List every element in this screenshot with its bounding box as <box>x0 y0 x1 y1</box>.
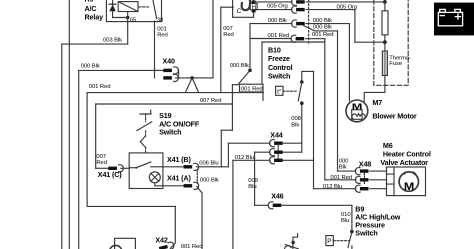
wire X44 row1 west <box>228 142 270 144</box>
wire 003 Blk down left bundle line 1 <box>61 44 63 249</box>
S19 actuator dashes lower <box>145 131 147 153</box>
relay coil K1 <box>118 2 138 12</box>
wire 000 Blk X41 A diagonal <box>197 186 202 193</box>
thermo fuse body <box>382 51 387 75</box>
junction dot pin 65 <box>126 16 129 19</box>
wire row B east <box>306 9 355 11</box>
svg-text:M: M <box>352 102 363 111</box>
connector X40 row2 plug <box>163 74 178 81</box>
connector X41 A plug <box>184 182 199 189</box>
connector X46 socket <box>268 202 281 209</box>
wire 000 Blk elbow to diagonal <box>232 84 237 86</box>
wire X44 row2 east <box>283 151 302 153</box>
wire coil bottom to pin 65 <box>127 12 129 18</box>
svg-text:Valve Actuator: Valve Actuator <box>380 158 428 167</box>
svg-text:X44: X44 <box>270 130 282 139</box>
B9 pressure box <box>326 236 333 246</box>
svg-text:B10: B10 <box>268 46 281 55</box>
relay switch blade to pin 30 <box>153 0 157 19</box>
svg-text:001: 001 <box>157 26 167 32</box>
svg-text:000 Blk: 000 Blk <box>230 63 249 69</box>
wire 000 Blk to X40 row1 <box>79 69 164 71</box>
connector X41 C plug <box>108 165 123 172</box>
wire to fuse bottom dot <box>355 41 385 43</box>
wire bundle line 2 from top <box>68 0 70 249</box>
bottom switch blade <box>285 245 298 249</box>
S19 switch blade <box>136 162 151 168</box>
wire 012 Blu drop x232.9 to bottom <box>232 160 234 249</box>
wire 000 Blk to X48 row1 <box>338 170 356 172</box>
wire down x202 to bottom <box>201 193 203 249</box>
wire pin 30 down to X40 row2 <box>154 21 156 78</box>
S19 blade pivot nub <box>135 167 137 169</box>
fuse body <box>382 11 388 35</box>
wire X46 east to B9 <box>281 204 352 206</box>
svg-text:005 Org: 005 Org <box>267 4 288 10</box>
wire row D east 001 Red <box>306 38 325 40</box>
bottom enclosure right edge with X42 lead <box>170 206 175 248</box>
svg-text:C: C <box>237 8 242 15</box>
wire 012 Blu drop x313.5 <box>313 71 315 188</box>
wire 009 Blu drop x254.6 <box>254 152 256 205</box>
wire S19 to X41 B <box>163 166 184 168</box>
wire diode to junction <box>113 17 128 19</box>
wire 001 Red row D west <box>250 38 291 40</box>
connector row D socket <box>291 35 304 42</box>
svg-text:30: 30 <box>157 18 163 24</box>
B10 t-switch box <box>276 86 283 95</box>
M6 motor circle <box>399 172 418 191</box>
S19 wire into blade <box>129 167 136 169</box>
M7 fan arcs <box>352 114 365 119</box>
M7 blower motor circle <box>346 100 368 122</box>
S19 lamp cross <box>151 173 159 181</box>
wire X48 row2 to M6 <box>370 179 387 181</box>
svg-text:M7: M7 <box>372 98 382 107</box>
svg-text:Blu: Blu <box>248 184 256 190</box>
svg-text:X41 (C): X41 (C) <box>98 170 122 179</box>
svg-text:005 Org: 005 Org <box>337 4 358 10</box>
S19 lamp circle <box>149 172 160 183</box>
wire 005 Org row A west <box>254 1 292 3</box>
battery body <box>438 9 462 25</box>
svg-text:000 Blk: 000 Blk <box>268 18 287 24</box>
B10 label box stub down <box>262 92 264 100</box>
wire X44 row1 west riser x228.4 <box>227 143 229 167</box>
pin H square <box>250 3 257 9</box>
svg-text:001 Red: 001 Red <box>312 32 334 38</box>
svg-text:Relay: Relay <box>85 13 104 22</box>
svg-text:001 Red: 001 Red <box>268 33 290 39</box>
wire riser at x213 to top <box>212 0 214 78</box>
B10 box top <box>262 41 325 43</box>
wire X48 row3 to M6 <box>370 188 387 190</box>
B10 switch top dot <box>300 80 304 84</box>
wire 008 Blk riser B10 switch <box>301 103 303 152</box>
connector X44 row1 socket <box>270 140 283 147</box>
pin H dot lower <box>252 10 256 13</box>
pin H dot upper <box>252 1 256 4</box>
wire diagonal from junction x250 <box>238 70 250 84</box>
svg-text:Freeze: Freeze <box>268 54 290 63</box>
S19 right contact wire <box>151 166 163 168</box>
svg-text:Fuse: Fuse <box>389 61 403 67</box>
bottom switch dot <box>291 241 294 244</box>
dashed harness box around thermo fuse <box>374 0 408 85</box>
wire X48 row1 to M6 <box>370 170 387 172</box>
svg-text:000 Blk: 000 Blk <box>313 18 332 24</box>
wire ladder riser x232.4 <box>231 85 233 131</box>
B9 switch blade <box>348 232 352 248</box>
wire into X41 C <box>96 167 108 169</box>
wire 007 Red down to X41 C <box>95 104 97 168</box>
M7 fan housing rect <box>352 110 362 120</box>
wire 000 Blk row C west <box>250 23 292 25</box>
svg-text:Blu: Blu <box>341 218 349 224</box>
relay dashed actuator link <box>139 6 149 8</box>
wire X40 row2 east <box>176 77 213 79</box>
wire 003 Blk horizontal <box>62 43 128 45</box>
fuse leads <box>384 2 386 42</box>
connector X48 row3 socket <box>355 185 368 192</box>
wire ladder drop x221.3 <box>220 130 222 167</box>
S19 lamp bottom wire <box>155 183 163 186</box>
connector X44 row3 socket <box>270 157 283 164</box>
wire 010 Blu drop to B9 <box>351 205 353 231</box>
S19 actuator blade <box>137 122 152 131</box>
heater control box (C/H) <box>233 0 254 17</box>
wire 005 Org drop x354.9 <box>354 10 356 43</box>
svg-text:P: P <box>327 238 331 245</box>
svg-text:007 Red: 007 Red <box>200 98 222 104</box>
wire 000 Blk drop to X48 row1 <box>337 31 339 171</box>
M6 pin strip divider <box>387 167 395 196</box>
fuse F (top) dot upper <box>383 0 387 4</box>
svg-text:t°: t° <box>277 87 282 95</box>
svg-text:X41 (B): X41 (B) <box>167 155 191 164</box>
svg-text:Switch: Switch <box>355 229 377 238</box>
S19 switch box <box>129 153 163 189</box>
wire X44 row1 east to B10 switch <box>283 142 302 144</box>
connector X41 B plug <box>184 163 199 170</box>
battery icon panel <box>434 3 474 36</box>
svg-text:012 Blu: 012 Blu <box>323 184 342 190</box>
wire V-leg right <box>192 78 199 93</box>
fuse bottom dot <box>383 40 387 44</box>
S19 actuator T-bar <box>140 110 151 114</box>
svg-text:008: 008 <box>291 116 301 122</box>
clutch coil circle <box>110 245 122 249</box>
M6 actuator box <box>387 167 426 196</box>
wire pin 65 down <box>127 18 129 45</box>
wire 007 Red top riser <box>220 7 222 92</box>
B10 switch bottom dot <box>300 101 304 105</box>
wire 012 Blu to X48 row3 <box>314 188 356 190</box>
connector X42 plug <box>158 241 174 249</box>
svg-text:000 Blk: 000 Blk <box>200 177 219 183</box>
connector X40 row1 plug <box>163 67 178 74</box>
clutch component box <box>115 238 136 249</box>
diode inside R9 <box>109 0 116 18</box>
svg-text:Control: Control <box>268 63 293 72</box>
wire 000 Blk drop to M7 <box>348 24 350 101</box>
thermo fuse lead top <box>384 42 386 51</box>
wire 001 Red to X48 row2 <box>325 179 356 181</box>
svg-text:Blk: Blk <box>291 123 299 129</box>
B9 switch dot <box>350 230 354 234</box>
svg-text:X46: X46 <box>271 191 283 200</box>
svg-text:X42: X42 <box>155 236 167 245</box>
B9 switch lower lead <box>351 246 353 249</box>
wire V-leg left <box>185 78 192 93</box>
svg-text:000 Blk: 000 Blk <box>81 63 100 69</box>
bottom enclosure box top edge <box>87 205 175 207</box>
wire to C pin of heater box <box>221 6 233 8</box>
connector X44 row2 socket <box>270 149 283 156</box>
heater element curve <box>242 1 250 10</box>
svg-text:Switch: Switch <box>159 127 181 136</box>
svg-text:012 Blu: 012 Blu <box>235 155 254 161</box>
svg-text:001 Red: 001 Red <box>89 84 111 90</box>
B10 connectors dashed mate line <box>308 0 310 43</box>
connector row B socket <box>292 6 305 13</box>
svg-text:009: 009 <box>248 178 258 184</box>
svg-text:H: H <box>252 4 256 11</box>
X40 dashed mate line <box>178 69 180 76</box>
svg-text:Switch: Switch <box>268 72 290 81</box>
svg-text:000 Blk: 000 Blk <box>313 25 332 31</box>
M6 motor top arc ticks <box>404 172 416 174</box>
svg-text:Blower Motor: Blower Motor <box>372 111 416 120</box>
wire 001 Red corner down bundle line 4 <box>86 93 88 207</box>
bottom switch S (center) elbow <box>293 234 298 249</box>
wire ladder jog y130 <box>221 129 232 131</box>
relay R9 outer box <box>106 0 161 22</box>
thermo fuse inner line <box>384 52 386 75</box>
B10 001 Red label box <box>240 84 264 92</box>
S19 actuator chevron <box>140 136 145 147</box>
wire X44 row3 east <box>283 159 314 161</box>
svg-text:001 Red: 001 Red <box>181 244 203 249</box>
wire 006 Blu from X41 B east <box>196 166 228 168</box>
wire thermo fuse to M7 <box>364 75 385 101</box>
svg-text:Red: Red <box>223 32 234 38</box>
X41 dashed mate line <box>196 170 198 184</box>
svg-text:M: M <box>404 181 414 193</box>
wire riser x250 to row C <box>249 24 251 71</box>
B10 switch blade <box>298 82 302 101</box>
junction dot X40 east <box>190 76 194 80</box>
connector row A socket <box>292 0 305 6</box>
svg-text:001 Red: 001 Red <box>241 87 263 93</box>
wire 005 Org row B west <box>254 9 292 11</box>
svg-text:X48: X48 <box>359 160 371 169</box>
wire row A east to fuse dot <box>306 1 385 3</box>
svg-text:X41 (A): X41 (A) <box>167 174 191 183</box>
X44 dashed mate line <box>277 146 279 159</box>
wire X41 C to S19 box <box>121 167 129 169</box>
svg-text:Red: Red <box>157 33 168 39</box>
svg-text:R9: R9 <box>85 0 94 3</box>
bottom switch arc <box>285 246 291 249</box>
wire into X46 <box>255 204 269 206</box>
wire 007 Red horizontal y104 <box>96 103 233 105</box>
svg-text:Red: Red <box>96 160 107 166</box>
S19 actuator dashes upper <box>145 114 147 122</box>
junction dot x250 <box>248 69 252 73</box>
svg-text:65: 65 <box>130 18 136 24</box>
wire X44 row2 west <box>255 151 270 153</box>
connector row C socket <box>292 20 305 27</box>
svg-text:006 Blu: 006 Blu <box>199 161 218 167</box>
svg-text:Blk: Blk <box>339 164 347 170</box>
wire 000 Blk corner down bundle line 3 <box>78 70 80 249</box>
connector X48 row1 socket <box>355 168 368 175</box>
X48 dashed mate line <box>363 174 365 185</box>
svg-text:X40: X40 <box>163 57 175 66</box>
B10 t-switch dashes <box>283 90 297 92</box>
wire row C east upper 000 Blk <box>306 23 349 25</box>
svg-text:001 Red: 001 Red <box>330 175 352 181</box>
wire X44 row3 west <box>233 159 270 161</box>
B10 switch top elbow <box>302 71 314 82</box>
connector X48 row2 socket <box>355 176 368 183</box>
wire row C diagonal lower 000 Blk <box>304 26 338 31</box>
B10 box left <box>261 42 263 84</box>
B9 pressure dashes <box>333 240 349 242</box>
wire 001 Red horizontal y92.6 <box>87 92 263 94</box>
wire S19 to X41 A <box>163 185 184 187</box>
wire 001 Red drop B10 right <box>324 39 326 180</box>
svg-text:003 Blk: 003 Blk <box>103 38 122 44</box>
